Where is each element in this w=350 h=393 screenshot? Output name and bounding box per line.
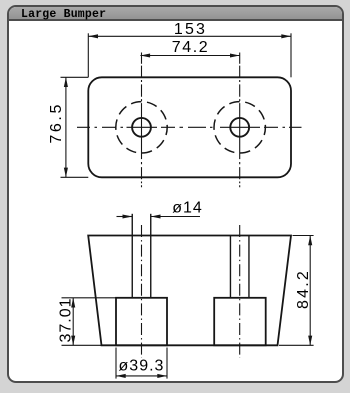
svg-text:ø14: ø14 [172,200,203,217]
dimension Ø39.3: dimension line with arrows [116,374,167,378]
dimension 84.2: extension line top [293,235,314,237]
vertical centerline + extension (74.2) through hole 2 [239,53,241,188]
dimension 153: extension line left [87,33,89,77]
dimension Ø14: right leader with arrow [151,214,200,218]
centerline post 2, front view [239,224,241,358]
dimension 37.01: extension line bottom [62,344,102,346]
dimension Ø39.3: extension line left [115,348,117,379]
dimension 76.5: dimension line with arrows [64,77,68,177]
hole 1 walls (Ø14) + extension lines, left, front view [132,214,151,298]
dimension 76.5: extension line top [61,76,89,78]
svg-text:76.5: 76.5 [48,102,65,144]
svg-text:37.01: 37.01 [58,297,75,342]
post 2 (Ø39.3), right, front view [214,298,266,346]
hole 2 walls (Ø14), right, front view [230,236,249,298]
centerline post 1, front view [141,222,143,358]
title bar [9,7,342,21]
hole 2 (Ø14), right, top view [230,118,249,137]
svg-text:153: 153 [174,21,207,38]
svg-text:74.2: 74.2 [172,39,210,56]
dimension 37.01: dimension line with arrows [71,298,75,346]
dimension 74.2: dimension line with arrows [140,53,239,57]
dimension Ø14: left leader with arrow [117,214,133,218]
post 1 (Ø39.3), left, front view [116,298,167,346]
dimension 84.2: dimension line with arrows [308,236,312,346]
bumper body outline (trapezoid), front view [88,236,291,346]
dimension Ø39.3: extension line right [166,348,168,379]
dimension 153: dimension line with arrows [88,34,291,38]
dimension 76.5: extension line bottom [61,176,89,178]
post 2 hidden outline (Ø39.3, dashed), right, top view [214,102,265,153]
hole 1 (Ø14), left, top view [132,118,151,137]
bumper outline (rounded rectangle), top view [88,77,291,177]
dimension 84.2: extension line bottom [279,344,314,346]
vertical centerline + extension (74.2) through hole 1 [141,53,143,188]
post 1 hidden outline (Ø39.3, dashed), left, top view [116,102,167,153]
dimension 37.01: extension line top [62,297,117,299]
svg-text:ø39.3: ø39.3 [119,358,165,375]
horizontal centerline, top view [77,126,302,128]
svg-text:84.2: 84.2 [295,269,312,309]
title text [21,8,106,21]
dimension 153: extension line right [290,33,292,77]
